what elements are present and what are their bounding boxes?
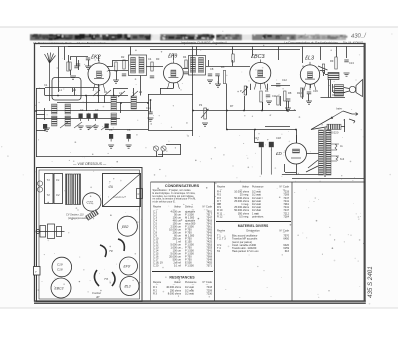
wire [173,83,175,88]
svg-text:C18: C18 [276,136,281,140]
wire: heater lead 2 [306,166,318,172]
ground: C5 [126,145,132,148]
wire: V2 top cap [173,54,175,60]
wire [72,88,74,92]
wire [58,88,60,92]
ground: C3 [93,126,99,129]
wire [208,60,210,66]
svg-text:C8: C8 [210,67,214,71]
ground: P2 [202,123,208,126]
potentiometer P1 volume [242,86,248,95]
resistor R5 diode load [223,71,225,84]
svg-text:C16: C16 [313,89,318,93]
output transformer T3 primary [328,73,339,80]
wire [68,55,70,62]
wire [265,126,290,128]
wire [78,60,80,70]
capacitor C1b grid [74,66,78,68]
resistor R10 cathode [301,88,303,97]
resistor R7 grid leak [284,91,286,101]
wire: left edge bus [36,88,38,130]
ground: C15 [285,108,291,111]
wire: loop bottom [148,130,193,132]
ground: antenna coil [44,128,50,131]
svg-text:R5: R5 [221,65,225,69]
wire: B+ line 2 [227,129,296,131]
svg-text:EBC3: EBC3 [55,287,64,291]
junction dots [35,95,297,131]
svg-text:R8: R8 [288,91,292,95]
svg-text:430_/: 430_/ [351,33,368,40]
svg-text:C22: C22 [87,201,93,205]
rule above materiel divers [216,221,291,223]
wire: V2 anode to IF2 [183,68,188,70]
wire: detector to V3 [206,66,250,68]
svg-text:C6: C6 [127,128,131,132]
wire [333,92,345,94]
wire [150,100,152,106]
wire [156,151,158,157]
resistor R4 screen [185,60,187,68]
wire [160,88,162,94]
svg-text:(réglage/possédé): (réglage/possédé) [68,217,88,220]
wire: grid line tube1 [45,87,98,89]
coil L3 [65,104,71,114]
wire [285,172,296,174]
dial lamp LP2 [161,146,166,151]
wire: bus3 [36,110,148,112]
svg-text:C1: C1 [56,178,60,182]
resistor R2 screen [115,62,117,71]
wire [113,88,115,96]
svg-text:C1: C1 [44,83,48,87]
resistor R5a [232,54,234,62]
ground: C10 [215,84,221,87]
wire: V4 anode to T3 [320,70,325,72]
svg-text:R2: R2 [121,55,125,59]
wire [70,70,72,75]
capacitor C5 [127,134,131,142]
wire [254,130,256,143]
wire [232,60,234,66]
svg-text:et de service pour E.: et de service pour E. [153,201,176,204]
wire [286,101,288,111]
wire: V1 cathode down [98,84,100,96]
wire: top drop [320,47,322,61]
wire [88,60,90,66]
wire [343,111,352,114]
wire [323,72,325,76]
switch S2 contacts [93,90,138,97]
capacitor C13 [344,60,348,62]
chassis: fuse block [86,210,99,221]
scan speckle [1,31,392,305]
capacitor C6 [122,74,126,76]
svg-text:T2: T2 [47,193,51,197]
capacitor C10 [215,74,219,76]
chassis: shaft circles [37,181,42,192]
wire: B+ line [193,110,296,112]
chassis: connector CT [137,189,143,199]
wire [150,106,152,112]
ground: grid leak [70,76,76,79]
wire [76,57,78,62]
svg-text:MATERIEL DIVERS: MATERIEL DIVERS [238,224,269,228]
svg-text:C19: C19 [57,263,63,267]
potentiometer P2 tone [201,108,209,119]
svg-text:C18: C18 [57,268,63,272]
coil L1 antenna primary [52,104,58,114]
chassis: speaker terminal [34,267,41,276]
wire [318,66,328,70]
wire: AF drop [226,84,228,111]
wire: lamp top [166,144,181,146]
capacitor C9 detector [208,74,212,76]
resistor R1b grid leak [69,62,71,70]
wire [341,126,345,128]
antenna [45,53,56,102]
svg-text:C17: C17 [254,136,259,140]
svg-text:C11: C11 [272,94,277,98]
component value labels [44,55,354,140]
coil L7 [131,96,137,109]
wire [311,127,327,130]
wire [76,62,78,66]
capacitor C3 tuning [94,114,98,122]
coil L6 [111,113,117,125]
capacitor C8 [184,72,188,74]
wire: loop top [148,94,193,96]
table area top rule [151,181,365,183]
svg-text:C2: C2 [56,193,60,197]
ground: C16 [306,101,312,104]
wire [288,101,290,108]
heater winding taps [331,144,339,161]
wire [64,47,66,61]
svg-text:C4: C4 [148,57,152,61]
wire [68,46,90,48]
table column divider [214,182,216,301]
switch S1 wave band [60,122,109,130]
ground: R2 [113,80,119,83]
wire [36,88,45,90]
coil L4 [65,116,71,126]
paper edge right [397,27,398,308]
wire [192,130,194,136]
wire [218,76,220,84]
svg-text:R3: R3 [156,57,160,61]
wire [246,86,248,95]
capacitor C7 [150,76,154,78]
wire: bus2 [57,102,148,104]
chassis: capacitor can C18 C19 [52,257,72,277]
chassis: IF can T2 [54,174,63,204]
capacitor C14 [148,112,152,114]
ground: C4 [108,145,114,148]
wire: rail drop a [232,47,234,55]
wire [98,96,100,104]
svg-text:£L3: £L3 [304,56,314,62]
filter capacitor C17 electrolytic [257,138,264,175]
wire: AVC bus [150,49,300,51]
capacitor C5b [105,124,109,129]
svg-text:CT: CT [138,192,142,196]
wire [120,103,122,113]
resistor R1a [67,62,69,71]
svg-text:RESISTANCES: RESISTANCES [169,276,195,280]
chassis: coil block L [66,174,73,205]
wire: V3 anode coupling [271,85,290,87]
svg-text:C12: C12 [282,78,287,82]
paper edge top [0,27,398,28]
svg-text:EF9: EF9 [124,265,130,269]
ground: detector [207,80,213,83]
wire: loop left [148,94,150,130]
resistor R3 [151,62,153,71]
svg-text:R4: R4 [183,55,187,59]
wire [133,88,135,96]
chassis: power transformer TA [103,174,141,207]
rectifier tube V5 CY2 [275,143,307,164]
wire [252,47,254,57]
wire: top bus [40,46,364,48]
dial lamp LP1 [153,146,158,151]
chassis box border [37,168,143,302]
capacitor C2 [87,114,91,122]
chassis: socket EK2 [117,216,137,236]
mains plug arrows [349,113,358,124]
resistor R6 [260,91,262,102]
chassis: coil arc T9 [100,245,113,257]
wire: V3 pin2 [267,84,269,90]
svg-text:4P: 4P [96,295,100,299]
wire: bus4 [36,118,120,120]
svg-text:C13: C13 [349,61,354,65]
capacitor C12 coupling [276,84,280,86]
svg-text:P: P [240,89,242,93]
antenna coupling loop [52,78,81,101]
wire [196,47,198,56]
chassis: coil block L2 [74,174,81,205]
wire [140,76,142,96]
capacitor C16 [307,92,311,94]
svg-text:£D: £D [275,151,283,156]
chassis: socket CY2 [83,193,101,211]
wire: left stub [36,114,45,116]
wire: chassis bus [36,156,163,158]
ground: C14 [148,118,154,121]
svg-text:P2: P2 [199,103,203,107]
wire: bus1 [57,95,128,97]
wire: rail drop c [302,47,304,64]
wire: speaker return [321,97,346,99]
wire: drop [226,111,228,130]
wire [325,74,328,76]
coil L2 [52,116,58,126]
wire [44,108,46,120]
wire: V1 top cap [98,55,100,61]
svg-text:+: + [267,138,269,142]
wire: rail drop b [278,47,280,61]
wire [324,70,326,74]
wire: IF1 to V2 grid [146,66,163,68]
capacitor C15 [286,99,290,101]
wire [70,57,72,60]
resistor R9 [277,96,279,105]
wire [296,135,298,143]
ground: C13 [344,73,350,76]
power transformer T4 [319,128,332,177]
chassis: socket EBL1 [51,278,71,298]
wire [262,102,264,111]
svg-text:6v3: 6v3 [340,157,345,161]
capacitor C4a [43,124,47,132]
wire [302,88,304,99]
wire [280,96,282,106]
wire [36,130,45,132]
ground: C2 [86,126,92,129]
wire [130,47,132,56]
wire: HT return [282,174,320,176]
wire: rectifier output [296,164,298,175]
ground: C2a [85,66,91,69]
wire: heater lead [308,160,318,168]
loudspeaker HP [344,80,363,97]
capacitor C1 padder [79,114,83,122]
wire [308,94,310,101]
resistor R1 [123,60,125,69]
wire [104,96,106,104]
table area left border [150,182,152,301]
svg-text:C5: C5 [109,128,113,132]
capacitor C5a [76,64,80,66]
wire [44,88,46,96]
resistor R11 [322,64,324,72]
wire: T3 down lead [328,80,330,98]
wire [255,142,259,144]
tube V1 EK2 mixer [88,55,110,92]
coil L5 oscillator [111,96,117,110]
wire: lamp bottom [158,154,181,156]
svg-text:EL3: EL3 [125,285,131,289]
svg-text:T9: T9 [109,249,113,253]
wire [244,96,246,111]
svg-text:C3: C3 [95,108,99,112]
wire [255,142,259,144]
wire: osc bus [105,129,148,131]
wire: switch feed [311,118,332,130]
capacitor C4 [109,134,113,142]
wire [112,60,114,66]
wire: to rectifier [296,130,298,143]
chassis: coil arc T7 [94,270,107,286]
wire: V1 anode to IF1 [108,70,128,72]
svg-text:EB2: EB2 [122,225,129,229]
resistor R8 [335,57,337,69]
tube V3 EBC3 detector-AF [250,54,271,90]
switch Inter (mains) [331,111,343,119]
IF transformer T2 [189,56,206,76]
right tables right border [291,182,293,301]
svg-text:T1: T1 [47,178,51,182]
wire: HT to rectifier [307,153,319,155]
chassis: tuning gang assembly [36,224,65,239]
schematic outer frame [34,44,366,304]
wire [284,164,286,172]
svg-text:C2: C2 [80,108,84,112]
svg-text:R7: R7 [230,104,234,108]
wire [116,71,118,80]
paper edge bottom [0,308,398,309]
wire: V3 pin [250,84,252,90]
svg-text:C14: C14 [146,106,151,110]
wire: lower boundary right [292,178,364,180]
wire: V1 anode [107,66,113,68]
voltage selector 110/220 [327,124,341,134]
svg-text:R6: R6 [265,89,269,93]
svg-text:— VUE DESSOUS —: — VUE DESSOUS — [72,162,107,166]
capacitor C11 [266,95,270,97]
wire: grid cap lead [70,56,88,58]
wire: V2 cathode [160,88,173,90]
wire: left down [36,130,38,157]
svg-text:CONDENSATEURS: CONDENSATEURS [165,184,200,188]
svg-text:R10: R10 [297,91,302,95]
wire: lamp drop [162,151,164,157]
svg-text:R9: R9 [330,59,334,63]
tube V2 EF9 IF amp [164,54,184,89]
wire [346,47,348,59]
filter capacitor C18 electrolytic [267,138,274,175]
ground: C11 [266,101,272,104]
output transformer T3 secondary [332,85,344,97]
tube V4 EL3 output [300,56,319,91]
wire: T3 down lead 2 [330,80,332,98]
chassis: coil arc 1 [118,239,124,251]
wire: lamp right [180,144,182,154]
header smudged publisher line [30,33,347,42]
rule above resistances [152,271,213,273]
capacitor C2a [86,58,90,60]
wire [45,95,57,97]
wire: screen feed [192,47,194,131]
wire: antenna bus drop [58,47,60,89]
chassis: coil arc 4 [112,272,115,286]
ground: C1 [78,126,84,129]
wire [336,47,338,58]
svg-text:110/220: 110/220 [329,131,339,135]
wire [113,60,128,62]
wire [332,84,334,92]
chassis: IF can T1 [45,174,54,204]
svg-text:Inter: Inter [336,107,343,111]
svg-text:Transfo HT: Transfo HT [113,195,126,199]
wire [114,88,128,90]
IF transformer T1 [129,55,147,76]
wire [86,103,88,111]
chassis: socket EF9 [120,277,139,296]
wire [262,102,264,111]
chassis: socket EL3 [120,257,138,275]
wire: V4 cathode [310,84,312,88]
wire [86,96,88,104]
svg-text:£F9: £F9 [167,54,177,60]
wire [74,88,76,96]
wire [344,119,346,132]
